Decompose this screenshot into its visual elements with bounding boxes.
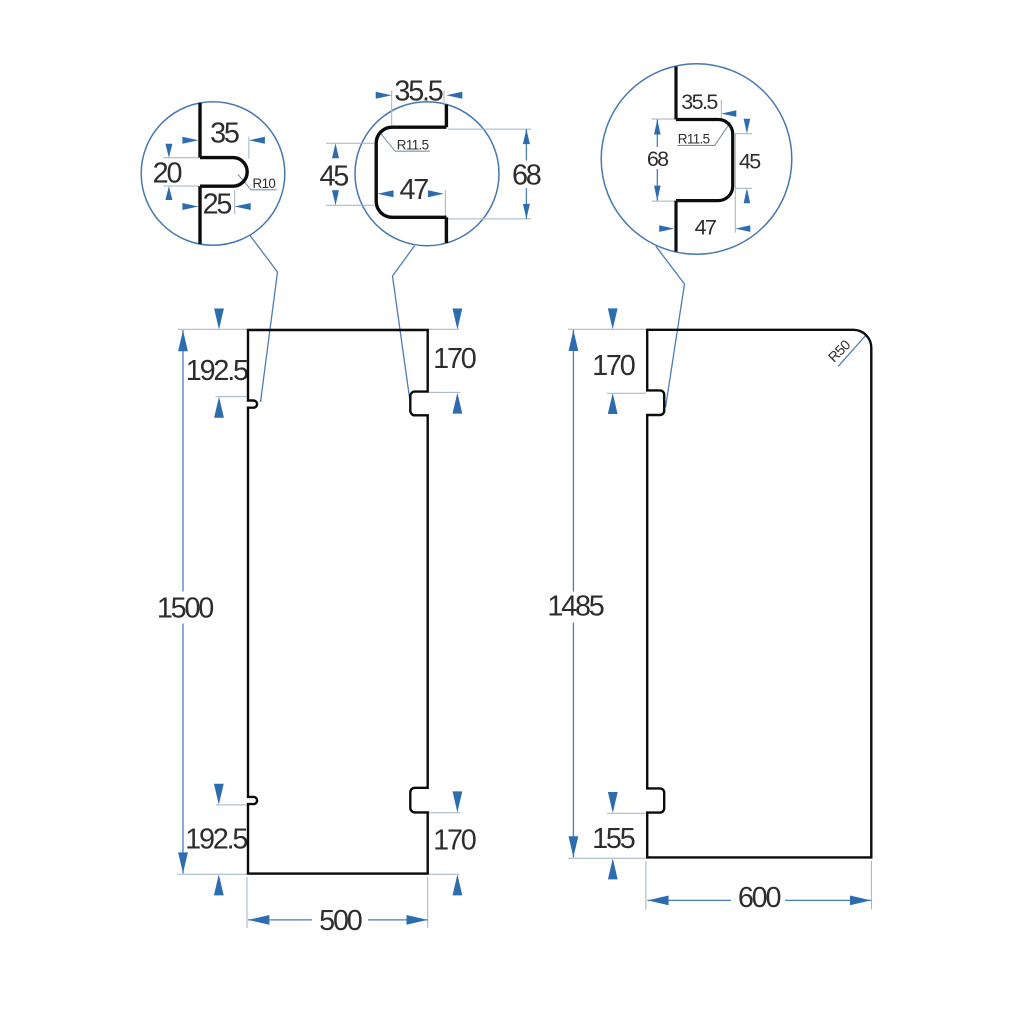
leader circle C to right panel top notch	[656, 246, 685, 407]
detail C: glass edge	[674, 67, 677, 120]
R50 leader	[838, 336, 865, 367]
detail circle B	[355, 102, 499, 246]
detail circle A	[141, 102, 285, 246]
detail B: ext for 45 bottom	[326, 204, 374, 206]
detail circle C	[601, 64, 792, 255]
svg-text:500: 500	[319, 905, 362, 937]
detail B: ext for 35.5 right	[443, 91, 445, 105]
svg-text:170: 170	[433, 343, 476, 375]
svg-text:170: 170	[592, 350, 635, 382]
dimension 500 (left panel width)	[248, 919, 312, 921]
extension line: 600 dim right	[870, 861, 872, 910]
svg-text:1500: 1500	[157, 593, 213, 625]
extension line: 500 dim left	[246, 877, 248, 928]
extension line: left panel bottom-right notch	[429, 812, 461, 814]
detail C: dim 47 arrows	[659, 225, 674, 232]
extension line: left panel bottom-left slot	[216, 804, 247, 806]
extension line: right panel bottom edge level	[568, 857, 646, 859]
detail C: dim 68 line+arrows	[656, 120, 658, 148]
extension line: left panel top edge level	[178, 328, 460, 330]
svg-text:170: 170	[433, 824, 476, 856]
svg-text:192.5: 192.5	[186, 355, 248, 387]
extension line: 600 dim left	[645, 861, 647, 910]
detail B: dim 35.5 arrows	[376, 92, 392, 99]
svg-text:25: 25	[203, 188, 232, 220]
dimension 170 (right panel)	[608, 308, 618, 329]
svg-text:35.5: 35.5	[681, 90, 718, 114]
detail C: ext for 47 right	[734, 133, 736, 233]
leader circle A to left panel top slot	[250, 236, 278, 403]
detail C: notch outline	[676, 120, 733, 201]
detail A: dim 25 arrows	[182, 203, 198, 210]
svg-text:68: 68	[512, 160, 541, 192]
svg-text:45: 45	[739, 149, 761, 173]
right glass panel outline	[647, 330, 871, 858]
detail B: ext for 45 top	[326, 142, 374, 144]
left glass panel outline	[248, 330, 428, 874]
detail A: extension for 35 right	[248, 137, 250, 159]
extension line: left panel top-right notch	[429, 391, 461, 393]
detail A: ext for 20 top	[164, 157, 200, 159]
detail B: dim 45 arrows	[332, 143, 339, 158]
detail C: ext for 68 bottom	[652, 200, 676, 202]
detail C: dim 35.5 arrow	[721, 110, 736, 117]
detail B: dim 68 line+arrows	[525, 129, 527, 160]
leader circle B to left panel top-right notch	[393, 246, 415, 400]
extension line: right panel top edge level	[568, 328, 646, 330]
extension line: left panel top-left slot	[216, 396, 247, 398]
svg-text:35: 35	[210, 118, 239, 150]
detail C: ext for 35.5 right	[720, 100, 722, 119]
svg-text:45: 45	[319, 160, 348, 192]
dimension 1485 (right panel height)	[572, 330, 574, 592]
extension line: left panel bottom edge level	[178, 873, 460, 875]
svg-text:68: 68	[647, 147, 669, 171]
detail B: ext for 68 bottom	[448, 218, 531, 220]
svg-text:47: 47	[399, 174, 428, 206]
detail B: ext for 68 top	[448, 128, 531, 130]
svg-text:20: 20	[153, 158, 182, 190]
svg-text:R11.5: R11.5	[678, 132, 710, 147]
dimension 192.5 top	[214, 309, 224, 330]
svg-text:600: 600	[738, 882, 781, 914]
dimension 1500 (left panel height)	[182, 330, 184, 592]
detail B: ext for 47 right	[444, 190, 446, 240]
dimension 170 bottom (left panel)	[453, 791, 463, 812]
extension line: 500 dim right	[427, 877, 429, 928]
extension line: right panel top-left notch	[607, 392, 646, 394]
detail B: glass edge	[445, 105, 448, 128]
detail B: notch outline	[376, 127, 446, 217]
detail A: R10 leader	[238, 175, 251, 190]
svg-text:R11.5: R11.5	[397, 137, 429, 152]
dimension 170 top (left panel)	[453, 309, 463, 330]
detail C: dim 45 arrows	[744, 119, 751, 134]
svg-text:47: 47	[695, 215, 716, 239]
svg-text:35.5: 35.5	[394, 76, 442, 108]
detail B: dim 47 arrows	[378, 190, 394, 197]
dimension 192.5 bottom	[214, 784, 224, 805]
detail A: dim 35 arrows	[182, 137, 198, 144]
svg-text:155: 155	[592, 823, 635, 855]
detail A: slot outline	[200, 158, 247, 187]
dimension 600 (right panel width)	[647, 899, 731, 901]
detail C: ext for 45 top	[736, 133, 752, 135]
svg-text:R10: R10	[253, 176, 276, 191]
detail A: glass edge	[198, 103, 201, 158]
detail A: ext for 20 bottom	[164, 185, 200, 187]
detail A: dim 20 arrows	[165, 144, 172, 158]
detail A: ext for 25 right	[234, 190, 236, 214]
dimension 155 (right panel)	[608, 792, 618, 813]
detail C: ext for 45 bottom	[736, 187, 752, 189]
extension line: right panel bottom-left notch	[607, 812, 646, 814]
detail B: ext for 35.5 left	[391, 91, 393, 126]
detail C: ext for 68 top	[652, 118, 676, 120]
svg-text:1485: 1485	[547, 591, 603, 623]
svg-text:192.5: 192.5	[185, 823, 247, 855]
detail B: R11.5 leader	[381, 134, 395, 151]
detail C: R11.5 leader	[715, 122, 731, 145]
